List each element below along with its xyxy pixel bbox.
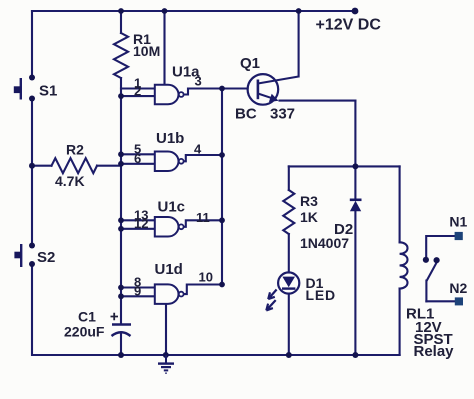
wire left bus lower segment and ground bottom rail [32,265,400,355]
svg-text:R3: R3 [300,193,318,209]
relay contact with terminals N1 and N2 [423,232,463,306]
node Q1 collector on +12V rail [296,8,302,14]
node C1 on bottom rail [118,352,124,358]
node pin 6 on input bus [118,161,124,167]
wire U1a input pin 1 [121,87,155,89]
svg-text:220uF: 220uF [64,324,105,340]
wire gate output bus [221,89,223,285]
resistor R3 [283,190,294,234]
node pin 12 on input bus [118,226,124,232]
svg-text:N1: N1 [449,214,467,230]
wire U1b input pin 5 [121,153,155,155]
svg-text:3: 3 [195,74,202,89]
node pin 13 on input bus [118,217,124,223]
wire U1b input pin 6 [121,163,155,165]
wire R1 top lead [120,11,122,33]
svg-text:9: 9 [134,283,141,298]
svg-text:U1d: U1d [155,261,183,278]
svg-text:N2: N2 [449,280,467,296]
node output 10 junction [219,282,225,288]
NAND gate U1d [134,261,213,304]
wire +12V top rail [32,10,355,12]
wire U1c input pin 13 [121,219,155,221]
node +12V DC supply terminal [352,8,359,15]
node output 4 junction [219,152,225,158]
svg-text:U1b: U1b [156,130,184,147]
wire LED bottom lead [288,294,290,356]
wire Q1 base lead [222,87,248,89]
node pin 9 on input bus [118,293,124,299]
NAND gate U1c [134,199,210,237]
svg-text:S1: S1 [39,83,57,100]
transistor Q1 [235,55,299,123]
wire U1d ground pin [165,304,167,355]
switch S2 [14,243,35,268]
svg-text:+12V DC: +12V DC [316,16,382,33]
NAND gate U1a [134,64,202,105]
inductor RL1 coil [400,242,408,288]
wire relay coil top lead [399,166,401,242]
wire U1d input pin 9 [121,295,155,297]
resistor R2 [52,158,98,173]
ground [158,355,174,373]
node pin 8 on input bus [118,285,124,291]
svg-text:4: 4 [194,141,202,156]
svg-text:R2: R2 [66,142,84,158]
wire R2 right lead [97,165,121,167]
switch S1 [14,75,35,102]
wire N2 contact lead [426,300,455,302]
svg-text:LED: LED [306,287,336,303]
wire D2 top lead [354,166,356,199]
wire emitter drop to load node [354,101,356,167]
wire relay armature [426,263,436,302]
node output 3 junction [219,86,225,92]
svg-text:Q1: Q1 [240,55,260,72]
node U1a power pin on +12V rail [162,8,168,14]
wire D2 bottom lead [354,211,356,355]
svg-text:Relay: Relay [414,343,455,360]
node R1 top on +12V rail [118,8,124,14]
node LED on bottom rail [286,352,292,358]
wire Q1 emitter run [280,100,356,102]
wire relay coil bottom lead [399,289,401,356]
wire gate input bus [120,78,122,324]
svg-text:1N4007: 1N4007 [300,235,349,251]
wire U1a output pin 3 [184,89,222,95]
NAND gate U1b [134,130,202,171]
svg-text:2: 2 [134,83,141,98]
node D2 on bottom rail [352,352,358,358]
wire left bus upper segment [31,11,33,77]
capacitor C1 [111,313,132,336]
diode D2 [350,200,362,212]
svg-text:11: 11 [196,210,210,225]
wire U1a input pin 2 [121,95,155,97]
svg-text:U1c: U1c [158,199,186,216]
wire left bus middle segment [31,100,33,245]
svg-text:337: 337 [270,106,295,123]
svg-text:C1: C1 [78,309,96,325]
wire U1d output pin 10 [184,285,222,295]
svg-text:10: 10 [199,270,213,285]
svg-text:S2: S2 [37,249,55,266]
wire R3 to LED lead [288,234,290,273]
wire C1 bottom lead [120,335,122,356]
resistor R1 [114,33,128,78]
wire N1 contact lead [426,236,455,258]
node R2 on left bus [29,163,35,169]
LED D1 [266,272,299,310]
wire load rail [289,165,400,167]
wire U1c output pin 11 [184,220,222,227]
node ground junction on bottom rail [163,352,169,358]
node pin 5 on input bus [118,151,124,157]
svg-text:12: 12 [134,216,148,231]
wire U1c input pin 12 [121,228,155,230]
node pin 2 on input bus [118,93,124,99]
svg-text:6: 6 [134,151,141,166]
wire U1d input pin 8 [121,286,155,288]
svg-text:BC: BC [235,106,257,123]
wire R3 top lead [288,166,290,190]
wire Q1 collector riser [298,11,300,77]
node load rail junction [352,163,358,169]
svg-text:10M: 10M [133,43,160,59]
wire U1b output pin 4 [184,155,222,161]
svg-text:1K: 1K [300,209,318,225]
wire U1a power pin [163,11,165,85]
wire R2 left lead [32,165,52,167]
node output 11 junction [219,217,225,223]
svg-text:4.7K: 4.7K [55,173,85,189]
